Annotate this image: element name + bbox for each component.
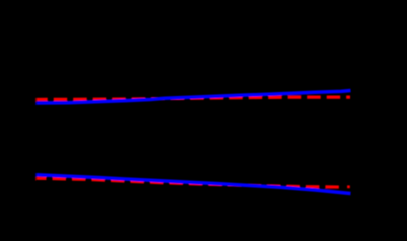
top panel red dashed curve — [37, 97, 350, 99]
bottom panel red dashed curve final stub dash — [347, 185, 350, 188]
bottom panel red dashed curve start tick — [34, 177, 37, 180]
top panel blue solid curve start tick — [34, 102, 37, 105]
top panel red dashed curve start tick — [34, 98, 37, 102]
bottom panel blue solid curve — [37, 175, 351, 194]
bottom panel blue solid curve start tick — [34, 173, 37, 177]
top panel blue solid curve — [37, 91, 351, 104]
bottom panel red dashed curve — [37, 178, 341, 187]
